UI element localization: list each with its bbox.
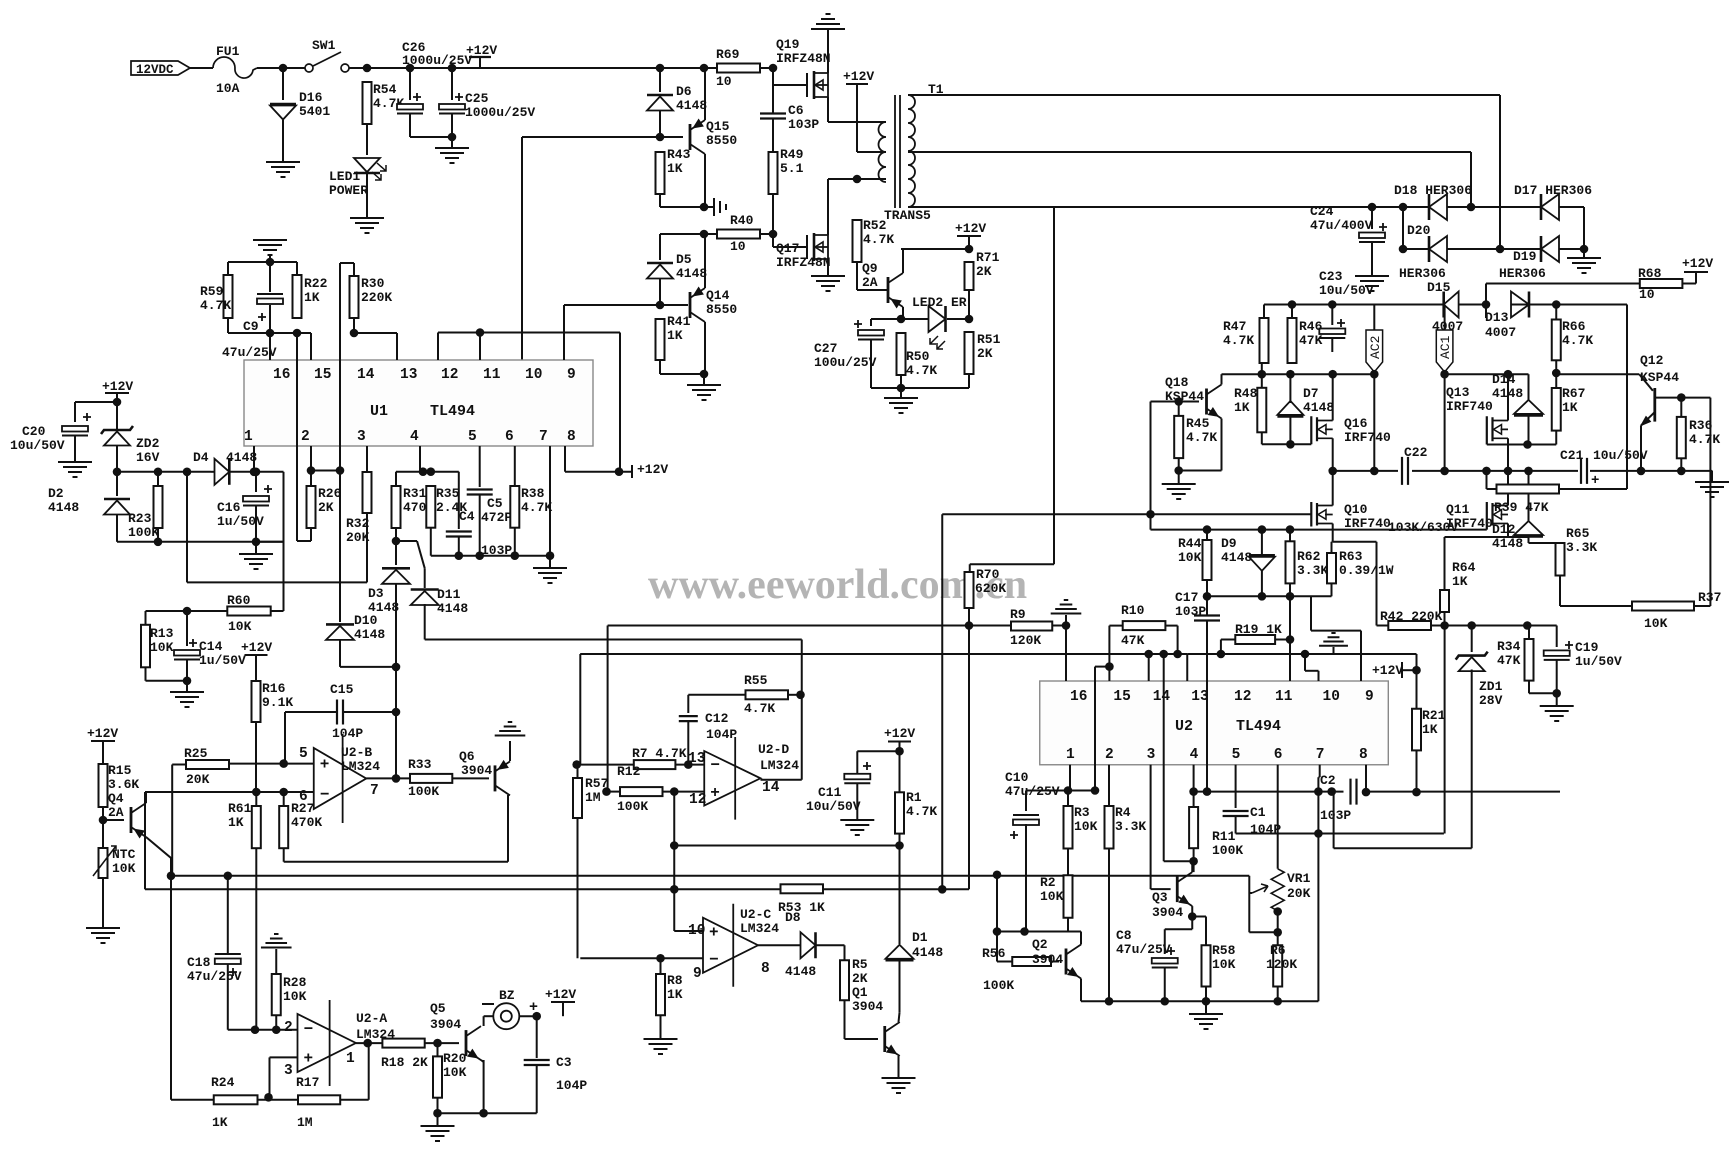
- diode D17: [1540, 194, 1543, 220]
- ZD1 top stub: [1471, 626, 1473, 653]
- R55 left wire: [688, 694, 745, 696]
- junction pin7 col y833: [1314, 829, 1323, 838]
- wire to R68: [1486, 283, 1640, 285]
- svg-text:R15: R15: [108, 763, 132, 778]
- svg-text:9: 9: [693, 966, 702, 982]
- svg-text:20K: 20K: [1287, 886, 1311, 901]
- R68 net wire: [1485, 284, 1487, 319]
- junction C17 top: [1203, 592, 1212, 601]
- junction R36 top: [1677, 393, 1686, 402]
- C15 right wire: [344, 711, 396, 713]
- svg-text:U2: U2: [1175, 718, 1193, 735]
- C16 stem: [255, 472, 257, 492]
- svg-text:R16: R16: [262, 681, 286, 696]
- svg-text:POWER: POWER: [329, 183, 368, 198]
- Q12 emitter down: [1640, 426, 1642, 471]
- Q3 collector up: [1191, 861, 1193, 872]
- C20 bottom: [74, 435, 76, 462]
- capacitor C1: [1223, 811, 1249, 816]
- junction R27: [279, 788, 288, 797]
- R52 to Q9 base: [856, 262, 858, 290]
- svg-text:D14: D14: [1492, 372, 1516, 387]
- U2-A minus wire: [228, 1029, 298, 1031]
- junction Q14 collector: [700, 370, 709, 379]
- vertical x580 upper: [579, 654, 581, 765]
- wire to Q19 gate: [772, 68, 774, 85]
- secondary mid stub: [908, 151, 915, 153]
- svg-text:R59: R59: [200, 284, 224, 299]
- junction R8: [656, 954, 665, 963]
- junction C18 riser: [224, 872, 233, 881]
- D9 top stub: [1261, 530, 1263, 556]
- svg-text:−: −: [304, 1021, 314, 1039]
- buzzer BZ: [493, 1003, 519, 1029]
- long horizontal y582: [187, 581, 367, 583]
- svg-text:R45: R45: [1186, 416, 1210, 431]
- plus input wire U2-B: [229, 763, 314, 765]
- svg-text:R33: R33: [408, 757, 432, 772]
- svg-text:1K: 1K: [1422, 722, 1438, 737]
- pin5 stub: [479, 446, 481, 487]
- junction R51 top: [965, 315, 974, 324]
- R28 bottom stub: [275, 1015, 277, 1030]
- to pin15: [297, 332, 311, 334]
- C26 bottom wire: [409, 113, 411, 137]
- svg-text:10u/50V: 10u/50V: [806, 799, 861, 814]
- diode D13: [1528, 292, 1531, 318]
- ground above Q19: [811, 14, 845, 29]
- svg-text:1K: 1K: [667, 161, 683, 176]
- capacitor C15: [337, 700, 343, 725]
- svg-text:R51: R51: [977, 332, 1001, 347]
- svg-text:10: 10: [730, 239, 746, 254]
- wire to R42 riser: [1333, 541, 1377, 543]
- junction wire1/x997: [993, 870, 1002, 879]
- pin6 stub: [514, 446, 516, 486]
- C27 stem: [870, 319, 872, 326]
- svg-text:R19 1K: R19 1K: [1235, 622, 1282, 637]
- transistor Q4 2A: [130, 807, 133, 833]
- R34 gnd tie: [1529, 692, 1557, 694]
- R37 left wire: [1560, 605, 1632, 607]
- svg-text:C20: C20: [22, 424, 46, 439]
- svg-text:R6: R6: [1270, 943, 1286, 958]
- gnd stem: [1333, 647, 1335, 654]
- svg-text:4148: 4148: [1492, 536, 1523, 551]
- +12V bar v: [631, 465, 633, 478]
- R20 top stub: [437, 1043, 439, 1056]
- svg-text:C25: C25: [465, 91, 489, 106]
- ground above C9: [253, 240, 287, 255]
- svg-text:R10: R10: [1121, 603, 1145, 618]
- wire D13 anode: [1511, 304, 1529, 306]
- transistor Q3 3904: [1176, 876, 1179, 902]
- resistor R46: [1288, 318, 1297, 363]
- svg-text:BZ: BZ: [499, 988, 515, 1003]
- R23 top stub: [157, 472, 159, 486]
- R58 bottom stub: [1205, 987, 1207, 1002]
- wire to D3: [395, 541, 397, 565]
- capacitor C2: [1351, 779, 1357, 805]
- junction R22 bottom: [293, 329, 302, 338]
- capacitor C17: [1194, 616, 1220, 621]
- svg-text:R22: R22: [304, 276, 328, 291]
- R45 top stub: [1178, 402, 1180, 416]
- R30 top stub: [353, 263, 355, 276]
- svg-text:4148: 4148: [354, 627, 385, 642]
- resistor R36: [1677, 417, 1686, 458]
- wire to Q1 base: [845, 1038, 879, 1040]
- svg-text:R26: R26: [318, 486, 342, 501]
- R65 bottom wire: [1559, 576, 1561, 607]
- pin16 stub: [1065, 615, 1067, 681]
- gnd stem: [1583, 249, 1585, 258]
- svg-text:IRF740: IRF740: [1344, 430, 1391, 445]
- junction x997: [993, 927, 1002, 936]
- svg-text:120K: 120K: [1266, 957, 1297, 972]
- junction R1 bottom: [895, 841, 904, 850]
- capacitor C3: [524, 1060, 550, 1065]
- C27 bottom: [870, 339, 872, 388]
- R44 top stub: [1206, 530, 1208, 540]
- svg-text:620K: 620K: [975, 581, 1006, 596]
- junction D6 top: [656, 64, 665, 73]
- svg-text:7: 7: [539, 429, 548, 445]
- svg-text:R67: R67: [1562, 386, 1585, 401]
- junction C16 top: [252, 468, 261, 477]
- svg-text:R2: R2: [1040, 875, 1056, 890]
- gate drive wire y529: [1151, 529, 1487, 531]
- svg-text:4.7K: 4.7K: [906, 363, 937, 378]
- resistor R35: [426, 486, 435, 528]
- svg-text:4.7K: 4.7K: [200, 298, 231, 313]
- svg-text:R37: R37: [1698, 590, 1721, 605]
- diode D18: [1428, 194, 1431, 220]
- minus input wire U2-B: [145, 791, 314, 793]
- svg-text:8: 8: [1359, 747, 1368, 763]
- mosfet Q19 IRFZ48N: [806, 73, 808, 97]
- svg-text:C2: C2: [1320, 773, 1336, 788]
- junction R45/Q18e: [1174, 466, 1183, 475]
- svg-text:100K: 100K: [408, 784, 439, 799]
- svg-text:+12V: +12V: [884, 726, 915, 741]
- svg-text:R13: R13: [150, 626, 174, 641]
- junction D9 bottom: [1258, 592, 1267, 601]
- svg-text:C23: C23: [1319, 269, 1343, 284]
- D9 bottom stub: [1261, 571, 1263, 596]
- R19 left jog: [1221, 639, 1235, 641]
- pin1 net wire: [117, 471, 211, 473]
- junction R12 drive: [602, 787, 611, 796]
- svg-text:Q9: Q9: [862, 261, 878, 276]
- +12V bar: [888, 741, 911, 743]
- ground under C11: [840, 820, 874, 835]
- junction Q3 emitter: [1188, 912, 1197, 921]
- R13 bottom tie: [146, 680, 188, 682]
- junction C11 top: [895, 747, 904, 756]
- svg-text:1K: 1K: [304, 290, 320, 305]
- svg-text:R28: R28: [283, 975, 307, 990]
- svg-text:2: 2: [1105, 747, 1114, 763]
- svg-text:12VDC: 12VDC: [136, 63, 174, 77]
- svg-text:C12: C12: [705, 711, 729, 726]
- R36 bottom stub: [1680, 458, 1682, 471]
- gate wire Q13: [1487, 444, 1556, 446]
- svg-text:R44: R44: [1178, 536, 1202, 551]
- C16 bottom stem: [255, 505, 257, 542]
- R63 bottom stub: [1331, 583, 1333, 596]
- gnd stem: [1205, 1001, 1207, 1014]
- svg-text:R5: R5: [852, 957, 868, 972]
- svg-text:2A: 2A: [108, 805, 124, 820]
- ground under Q1: [882, 1078, 916, 1093]
- Q11 source wire left: [1445, 536, 1509, 538]
- diode D12: [1514, 535, 1543, 538]
- wire to C26: [409, 68, 411, 100]
- C11 bottom stem: [856, 783, 858, 820]
- junction D20: [1399, 245, 1408, 254]
- resistor R48: [1257, 388, 1266, 433]
- wire to ground: [703, 374, 705, 385]
- resistor R68: [1640, 279, 1683, 288]
- junction D20 branch: [1399, 203, 1408, 212]
- C15 left wire: [285, 711, 336, 713]
- emitter tie wire: [1179, 470, 1222, 472]
- resistor R1: [895, 792, 904, 833]
- svg-text:47u/25V: 47u/25V: [187, 969, 242, 984]
- svg-text:Q12: Q12: [1640, 353, 1664, 368]
- junction through line: [1159, 650, 1168, 659]
- R61 top stub: [255, 792, 257, 806]
- U2 pin8 stub: [1365, 765, 1367, 792]
- R19 right wire: [1275, 639, 1290, 641]
- junction VR1 end: [1273, 907, 1282, 916]
- ground under C14: [170, 692, 204, 707]
- R32 bottom wire: [366, 513, 368, 582]
- R22 bottom long wire through U1: [296, 333, 298, 541]
- svg-text:470K: 470K: [291, 815, 322, 830]
- x283 to long wire: [283, 542, 285, 583]
- junction R52: [853, 175, 862, 184]
- drive vertical x1150: [1150, 402, 1152, 530]
- plus node riser: [673, 792, 675, 931]
- resistor R51: [965, 332, 974, 374]
- svg-text:ZD1: ZD1: [1479, 679, 1503, 694]
- wire y845 to R1: [674, 845, 899, 847]
- svg-text:2: 2: [301, 429, 310, 445]
- Q11 drain riser: [1507, 471, 1509, 506]
- svg-text:C6: C6: [788, 103, 804, 118]
- D12 top stub: [1528, 471, 1530, 522]
- pin13 stub: [396, 333, 398, 360]
- junction pin7 col: [1314, 787, 1323, 796]
- junction x187: [183, 468, 192, 477]
- svg-text:+: +: [304, 1050, 314, 1068]
- svg-text:LM324: LM324: [740, 921, 779, 936]
- junction R13/C14 top: [183, 607, 192, 616]
- ground under R8: [644, 1039, 678, 1054]
- C3 bottom stem: [536, 1066, 538, 1113]
- x1444 column: [1444, 626, 1446, 834]
- wire R69 to Q19 node: [760, 67, 773, 69]
- svg-text:1K: 1K: [667, 328, 683, 343]
- svg-text:10: 10: [688, 923, 705, 939]
- resistor R31: [392, 486, 401, 528]
- svg-text:4.7K: 4.7K: [1689, 432, 1720, 447]
- op-amp U2-A LM324: [298, 1014, 356, 1072]
- ground under R50: [884, 398, 918, 413]
- svg-text:Q2: Q2: [1032, 937, 1048, 952]
- pin2 stub: [310, 446, 312, 486]
- ground under C19: [1540, 706, 1574, 721]
- R24 left riser: [170, 876, 172, 1100]
- Q9 base wire: [857, 289, 888, 291]
- R27 bottom stub: [283, 848, 285, 862]
- junction R28 bottom: [272, 1025, 281, 1034]
- junction C12: [684, 760, 693, 769]
- +12V bar v: [1401, 662, 1403, 678]
- +12V stem: [562, 1002, 564, 1016]
- junction R43/D6: [656, 133, 665, 142]
- svg-text:+: +: [1591, 473, 1599, 489]
- y654 to +12V node: [1416, 654, 1418, 670]
- gnd stem: [549, 556, 551, 568]
- svg-text:4007: 4007: [1485, 325, 1516, 340]
- R16 bottom wire: [255, 722, 257, 792]
- +12V stem right: [1695, 272, 1697, 284]
- gnd stem: [186, 681, 188, 692]
- resistor R23: [154, 486, 163, 528]
- gate wire Q16: [1262, 443, 1312, 445]
- wire y304 right: [1529, 304, 1627, 306]
- svg-text:10K: 10K: [150, 640, 174, 655]
- svg-text:3: 3: [284, 1063, 293, 1079]
- svg-text:1u/50V: 1u/50V: [1575, 654, 1622, 669]
- wire y304 left: [1264, 304, 1444, 306]
- fuse FU1: [213, 57, 257, 78]
- junction Q15 collector: [700, 203, 709, 212]
- svg-text:3.3K: 3.3K: [1115, 819, 1146, 834]
- svg-text:Q16: Q16: [1344, 416, 1368, 431]
- center tap wire: [857, 151, 886, 153]
- svg-text:TRANS5: TRANS5: [884, 208, 931, 223]
- R10 right riser: [1177, 626, 1179, 654]
- resistor R7: [634, 760, 676, 769]
- wire D6 to Q15 base node: [659, 111, 661, 137]
- long wire y861 to Q6: [284, 861, 508, 863]
- capacitor C9: [257, 293, 283, 295]
- svg-text:+12V: +12V: [843, 69, 874, 84]
- resistor R15: [99, 764, 108, 807]
- svg-text:R40: R40: [730, 213, 754, 228]
- wire to BZ: [484, 1015, 494, 1017]
- Q12 collector wire right: [1681, 397, 1710, 399]
- R21 top stub: [1416, 670, 1418, 709]
- svg-text:R65: R65: [1566, 526, 1590, 541]
- svg-text:103K/630V: 103K/630V: [1388, 520, 1458, 535]
- transistor Q1 3904: [883, 1026, 886, 1052]
- junction C10 bottom: [1020, 927, 1029, 936]
- junction ZD2/D2: [113, 468, 122, 477]
- ground under NTC: [86, 928, 120, 943]
- resistor R28: [272, 974, 281, 1015]
- Q3 base wire: [1151, 888, 1171, 890]
- Q17 gate wire: [773, 246, 807, 248]
- C17 bottom stem: [1206, 621, 1208, 792]
- junction pin15 branch: [1105, 662, 1114, 671]
- R1 bottom stub: [899, 834, 901, 846]
- svg-text:D15: D15: [1427, 280, 1451, 295]
- pin4 stub down: [1193, 765, 1195, 792]
- junction R23 top: [154, 468, 163, 477]
- svg-text:C9: C9: [243, 319, 259, 334]
- resistor R54: [363, 82, 372, 124]
- R31 top stub: [395, 472, 397, 486]
- C8 jog: [1165, 928, 1193, 930]
- resistor R47: [1260, 318, 1269, 363]
- svg-text:9: 9: [567, 367, 576, 383]
- R57 bottom to U2-C minus: [577, 818, 579, 958]
- Q14 emitter to R40 node: [704, 234, 706, 288]
- junction R24/R17: [264, 1093, 273, 1102]
- +12V to center tap: [856, 84, 858, 152]
- wire D20 to D19: [1447, 248, 1541, 250]
- junction fuse/D16: [279, 64, 288, 73]
- junction Q13 drain: [1504, 370, 1513, 379]
- long wire y654: [580, 653, 1187, 655]
- C5 bottom stub: [479, 495, 481, 556]
- junction R34 top: [1523, 621, 1532, 630]
- long wire-2 y889 R53: [145, 888, 942, 890]
- svg-text:HER306: HER306: [1399, 266, 1446, 281]
- +12V stem: [899, 742, 901, 752]
- Q4 collector wire: [146, 837, 171, 876]
- resistor R60: [227, 607, 270, 616]
- junction C3 top: [532, 1012, 541, 1021]
- secondary bottom stub: [908, 206, 944, 208]
- svg-text:10K: 10K: [228, 619, 252, 634]
- wiper wire: [1249, 892, 1252, 894]
- x1627 to R39: [1626, 473, 1628, 489]
- x1095 wire down: [1094, 667, 1096, 791]
- R66-R67 link: [1555, 360, 1557, 388]
- Q16 drain riser: [1332, 374, 1334, 420]
- signal ground near Q15: [704, 198, 726, 216]
- junction D19/gnd: [1580, 245, 1589, 254]
- svg-text:R38: R38: [521, 486, 545, 501]
- long wire to U1 pin10: [521, 137, 523, 360]
- R34 bottom stub: [1528, 681, 1530, 694]
- junction D3/D10: [392, 663, 401, 672]
- pin11 stub: [479, 333, 481, 361]
- wire y931: [997, 931, 1068, 933]
- resistor R50: [897, 333, 906, 375]
- junction R66 top: [1552, 300, 1561, 309]
- wire x1403: [1402, 207, 1404, 249]
- wire R18 to Q5: [425, 1042, 459, 1044]
- transistor Q14 8550: [689, 292, 692, 318]
- ground above y654: [1319, 633, 1348, 646]
- ground under Q5: [421, 1126, 455, 1141]
- gnd stem: [437, 1113, 439, 1126]
- svg-text:6: 6: [1274, 747, 1283, 763]
- svg-text:4148: 4148: [912, 945, 943, 960]
- svg-text:12: 12: [1234, 689, 1251, 705]
- svg-text:10K: 10K: [1074, 819, 1098, 834]
- pin4 net wire: [396, 471, 459, 473]
- Q16 source wire: [1332, 438, 1334, 471]
- svg-text:3904: 3904: [461, 763, 492, 778]
